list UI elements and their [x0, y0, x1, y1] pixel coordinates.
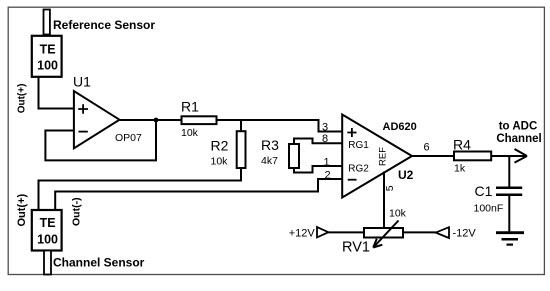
svg-text:RV1: RV1: [342, 240, 370, 256]
svg-text:10k: 10k: [211, 156, 229, 168]
wire: channel sensor Out(+) rail: [39, 181, 243, 211]
svg-text:8: 8: [322, 133, 328, 145]
resistor R2: [237, 131, 246, 168]
svg-text:REF: REF: [378, 147, 389, 166]
svg-text:5: 5: [384, 185, 396, 191]
svg-text:RG2: RG2: [348, 163, 369, 174]
wire: channel sensor Out(-) to U2 pin 2: [55, 179, 342, 210]
svg-text:C1: C1: [475, 183, 493, 199]
svg-text:U1: U1: [73, 73, 91, 89]
svg-text:R3: R3: [261, 137, 279, 153]
wire: junction to C1: [508, 156, 510, 188]
ground: [496, 233, 524, 245]
wire: C1 to ground: [508, 195, 510, 232]
channel sensor TE100: [32, 210, 62, 251]
svg-text:4k7: 4k7: [261, 155, 278, 167]
svg-text:+12V: +12V: [289, 227, 316, 239]
power -12V: [436, 227, 477, 239]
svg-text:Out(-): Out(-): [71, 197, 83, 226]
svg-text:OP07: OP07: [115, 132, 142, 144]
svg-text:100: 100: [37, 59, 58, 73]
wire: R2 top lead: [240, 120, 242, 132]
node: U1 output junction: [154, 118, 159, 123]
svg-text:RG1: RG1: [348, 140, 369, 151]
in-amp U2 AD620: [342, 115, 412, 198]
svg-text:100: 100: [37, 232, 58, 246]
svg-text:10k: 10k: [389, 208, 407, 220]
reference sensor lead: [44, 10, 50, 35]
power +12V: [289, 227, 329, 239]
wire: R3 bottom to U2 pin 1: [294, 166, 342, 173]
wire: U2 REF pin 5 to RV1: [383, 172, 385, 229]
wire: +12V to RV1: [328, 231, 364, 233]
wire: R1 to U2 pin 3: [217, 120, 343, 132]
svg-text:100nF: 100nF: [474, 203, 504, 215]
wire: RV1 to -12V: [403, 231, 436, 233]
op-amp U1: [74, 91, 120, 148]
wire: R4 to ADC arrow: [491, 149, 527, 163]
resistor R4: [454, 152, 491, 161]
wire: U1 feedback loop: [45, 120, 156, 160]
wire: reference sensor to U1 + input: [39, 77, 74, 109]
svg-text:to ADC: to ADC: [499, 121, 538, 133]
svg-text:Out(+): Out(+): [16, 193, 28, 226]
svg-text:Out(+): Out(+): [17, 84, 28, 114]
svg-text:1k: 1k: [454, 163, 466, 175]
svg-text:Channel Sensor: Channel Sensor: [53, 256, 145, 270]
channel sensor lead: [44, 251, 51, 275]
svg-text:R2: R2: [211, 138, 229, 154]
svg-text:U2: U2: [398, 168, 414, 182]
svg-text:10k: 10k: [181, 127, 199, 139]
svg-text:R4: R4: [453, 136, 471, 152]
wire: U2 output pin 6: [411, 155, 455, 157]
svg-text:TE: TE: [40, 216, 56, 230]
svg-text:TE: TE: [40, 43, 56, 57]
resistor R1: [182, 116, 217, 124]
svg-text:R1: R1: [181, 99, 199, 115]
reference sensor TE100: [32, 36, 62, 77]
svg-text:AD620: AD620: [383, 121, 417, 133]
svg-text:1: 1: [324, 156, 330, 168]
svg-text:6: 6: [424, 142, 430, 154]
wire: U1 output: [118, 119, 182, 121]
svg-text:-12V: -12V: [453, 228, 477, 240]
resistor R3: [289, 144, 299, 168]
svg-text:Channel: Channel: [496, 133, 541, 145]
svg-text:3: 3: [322, 122, 328, 134]
label to ADC Channel: [496, 121, 541, 145]
potentiometer RV1: [364, 221, 403, 248]
svg-text:2: 2: [325, 169, 331, 181]
capacitor C1: [496, 188, 522, 195]
wire: R2 bottom lead: [240, 168, 242, 181]
svg-text:Reference Sensor: Reference Sensor: [53, 18, 155, 32]
wire: R3 top to U2 pin 8: [294, 139, 342, 145]
